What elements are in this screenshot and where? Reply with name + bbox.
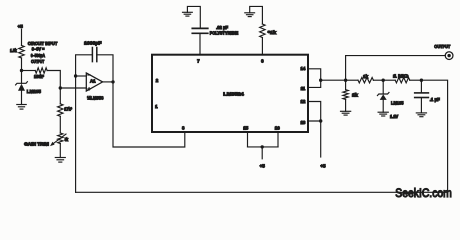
svg-text:½LM358: ½LM358 [87, 95, 104, 100]
wire pin 14 [308, 69, 321, 88]
resistor 1 Mohm [395, 78, 410, 83]
wire R 1M to node C [410, 79, 422, 81]
svg-text:1: 1 [155, 104, 158, 109]
ground (left zener) [17, 104, 26, 106]
wire node B down to zener [382, 80, 384, 94]
svg-text:1k: 1k [352, 92, 358, 97]
svg-text:1.2V: 1.2V [390, 114, 398, 119]
svg-text:CIRCUIT INPUT: CIRCUIT INPUT [28, 41, 58, 46]
ground (gain trim) [55, 157, 65, 159]
wire R 17k to pot [59, 116, 61, 133]
svg-text:1 MΩ: 1 MΩ [393, 73, 409, 78]
svg-text:OUTPUT: OUTPUT [434, 44, 450, 49]
wire pin 13 node to +5 stub [320, 121, 322, 157]
wire node A down to R 1k [345, 80, 347, 90]
capacitor .02uF polystyrene [192, 27, 208, 29]
wire pins 14-11 node to output network [321, 79, 346, 81]
svg-text:16: 16 [275, 126, 280, 131]
resistor 1k (load, vertical) [343, 90, 348, 100]
node pin 13 junction [319, 119, 322, 122]
svg-text:8: 8 [182, 126, 185, 131]
svg-text:+5: +5 [18, 24, 24, 29]
svg-text:1000pF: 1000pF [84, 41, 102, 46]
svg-text:+5: +5 [260, 164, 266, 169]
wire minus node to op-amp - input [76, 75, 87, 77]
wire +5 rail down to R 1.5k [21, 30, 23, 46]
svg-text:GAIN TRIM: GAIN TRIM [24, 141, 49, 146]
potentiometer 5k GAIN TRIM [58, 133, 63, 144]
wire output rail up to feedback cap [97, 55, 113, 82]
svg-text:12: 12 [300, 99, 305, 104]
wire R 1.5k to input node [21, 58, 23, 71]
wire op-amp output to node [103, 81, 113, 83]
wire plus node to op-amp + input [60, 87, 86, 89]
zener diode LM185 (left) [16, 82, 28, 85]
wire node B to R 1M [383, 79, 395, 81]
wire minus rail down to bottom feedback wire [75, 76, 77, 192]
node pins 14-11 junction [319, 79, 322, 82]
svg-text:0–500μA: 0–500μA [31, 53, 46, 58]
svg-text:LM185: LM185 [27, 89, 42, 94]
node output-network junction C [420, 79, 423, 82]
wire ground hook to cap [187, 6, 200, 28]
svg-text:13: 13 [300, 120, 305, 125]
svg-text:2: 2 [156, 78, 159, 83]
capacitor 1000pF (feedback) [91, 48, 93, 62]
svg-text:7: 7 [197, 58, 200, 63]
svg-text:SeekIC.com: SeekIC.com [395, 188, 452, 200]
svg-text:6: 6 [261, 58, 264, 63]
wire joining pins 15 and 16 [248, 146, 279, 148]
resistor *1k (RT) [260, 24, 265, 38]
svg-text:11: 11 [301, 86, 306, 91]
zener diode LM185 (right) [377, 92, 389, 95]
svg-text:.02 μF: .02 μF [216, 25, 228, 30]
node plus-input junction [59, 86, 62, 89]
wire node C to op-amp feedback loop [76, 80, 448, 192]
resistor 1k (series) [358, 78, 373, 83]
node pins 15-16 junction [261, 145, 264, 148]
wire RT to pin 6 [261, 38, 263, 55]
svg-text:17k*: 17k* [64, 107, 72, 112]
wire node A to R 1k series [346, 79, 358, 81]
ground (load 1k) [341, 110, 351, 112]
wire R 1k to ground [345, 99, 347, 111]
svg-text:*1k: *1k [268, 30, 277, 35]
svg-text:100k*: 100k* [34, 74, 44, 79]
op-amp A1 1/2 LM358 [86, 73, 102, 91]
ground (RT resistor) [245, 12, 255, 14]
svg-text:+5: +5 [320, 163, 326, 168]
svg-text:3–6V =: 3–6V = [32, 47, 45, 52]
wire node A up and to OUTPUT terminal [346, 56, 446, 81]
wire pot to ground [59, 144, 61, 158]
svg-text:5k: 5k [65, 137, 69, 142]
wire plus node down to R 17k [59, 88, 61, 104]
wire R 1k series to node B [373, 79, 383, 81]
wire pin 12 [308, 102, 321, 122]
wire input node to R 100k [22, 70, 36, 72]
wire ground hook to RT [250, 6, 263, 24]
wire pin 16 down [277, 132, 279, 147]
svg-text:1k: 1k [363, 74, 368, 79]
svg-text:A1: A1 [90, 78, 96, 83]
svg-text:LM185: LM185 [391, 100, 404, 105]
wire R 100k to corner and down to plus node [47, 71, 60, 89]
svg-text:LM3524: LM3524 [223, 91, 244, 97]
ground (right zener) [378, 111, 388, 113]
svg-text:15: 15 [243, 126, 248, 131]
wire op-amp output rail down to pin 8 [113, 82, 185, 147]
svg-text:OUTPUT: OUTPUT [31, 59, 44, 64]
terminal OUTPUT [445, 52, 453, 60]
ground (timing cap) [183, 11, 193, 13]
svg-text:1.5k: 1.5k [10, 48, 17, 53]
resistor 1.5k [19, 45, 24, 58]
node op-amp output [111, 80, 114, 83]
wire cap to ground [420, 98, 422, 113]
wire zener to ground (right) [382, 100, 384, 112]
wire cap to pin 7 [199, 34, 201, 55]
wire pin 15 down [247, 132, 249, 147]
svg-text:.1 μF: .1 μF [430, 97, 440, 102]
node output-network junction B [382, 79, 385, 82]
node output-network junction A [344, 79, 347, 82]
capacitor .1uF [415, 92, 429, 94]
resistor 17k* [58, 104, 63, 117]
wire zener to ground [21, 91, 23, 105]
IC U1 LM3524 body [152, 55, 308, 132]
wire input node to zener [21, 71, 23, 84]
ground (filter cap) [416, 112, 426, 114]
node minus-input junction [74, 74, 77, 77]
wire feedback cap to minus rail [76, 55, 93, 76]
resistor 100k* [35, 68, 47, 73]
wire node C down to filter cap [420, 80, 422, 93]
svg-text:POLYSTYRENE: POLYSTYRENE [210, 31, 239, 36]
node input junction [20, 69, 23, 72]
svg-text:14: 14 [300, 66, 305, 71]
wire junction to +5 stub [261, 147, 263, 159]
